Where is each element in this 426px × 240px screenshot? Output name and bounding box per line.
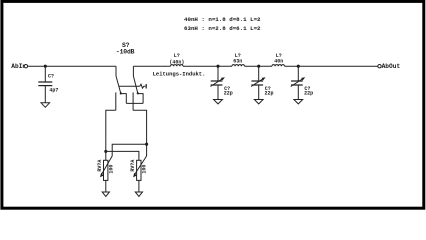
ground (RV left)	[102, 192, 109, 196]
wire L2 to node2	[245, 65, 273, 67]
svg-text:63n: 63n	[233, 58, 242, 64]
wire L3 to node3	[285, 65, 378, 67]
svg-text:40n: 40n	[274, 58, 283, 64]
node junction at C1	[44, 65, 47, 68]
trimmer resistor RV?A left 100	[97, 156, 114, 192]
svg-text:RV?A: RV?A	[97, 160, 103, 172]
wire bypass bar	[126, 102, 143, 104]
ground (C 22p #3)	[294, 100, 303, 104]
svg-text:22p: 22p	[265, 91, 274, 97]
wire AbIn to switch	[28, 65, 116, 67]
trimmer capacitor C? 22p #2	[251, 66, 273, 99]
svg-text:100: 100	[108, 165, 114, 174]
wire L1 to node1	[183, 65, 232, 67]
ground (C 4p7)	[41, 103, 50, 108]
svg-text:RV?A: RV?A	[130, 160, 136, 172]
svg-text:40nH : n=1.8 d=8.1 L=2: 40nH : n=1.8 d=8.1 L=2	[184, 16, 261, 23]
svg-text:22p: 22p	[224, 91, 233, 97]
node junction 2	[257, 65, 260, 68]
svg-text:-10dB: -10dB	[116, 49, 135, 56]
switch S? left pole	[116, 66, 127, 110]
node junction 3	[297, 65, 300, 68]
ground (C 22p #2)	[254, 100, 263, 104]
inductor L? 40n	[272, 53, 284, 66]
wire left throw to attenuator	[106, 110, 116, 160]
inductor L? 63n	[232, 53, 244, 66]
node junction right	[145, 143, 148, 146]
trimmer capacitor C? 22p #3	[291, 66, 313, 99]
svg-text:AbOut: AbOut	[382, 63, 401, 70]
svg-text:L?: L?	[174, 53, 180, 59]
svg-text:22p: 22p	[304, 91, 313, 97]
ground (C 22p #1)	[214, 100, 223, 104]
capacitor C? 4p7	[38, 66, 58, 103]
wire switch to L1	[133, 65, 170, 67]
svg-text:(40n): (40n)	[169, 60, 184, 66]
ground (RV right)	[135, 192, 142, 196]
trimmer resistor RV?A right 100	[130, 156, 147, 192]
switch S? right pole	[133, 66, 143, 110]
wire lower cross link	[106, 151, 139, 160]
switch actuator	[119, 84, 146, 89]
svg-text:C?: C?	[48, 73, 54, 79]
inductor L? (40n) Leitungs-Indukt.	[169, 53, 184, 66]
wire upper cross link	[112, 144, 146, 156]
trimmer capacitor C? 22p #1	[210, 66, 232, 99]
svg-text:100: 100	[142, 165, 148, 174]
node junction left	[104, 150, 107, 153]
svg-text:63nH : n=2.8 d=6.1 L=2: 63nH : n=2.8 d=6.1 L=2	[184, 25, 261, 32]
svg-text:4p7: 4p7	[49, 87, 58, 93]
node junction 1	[216, 65, 219, 68]
wire right throw to attenuator	[133, 110, 147, 156]
svg-text:Leitungs-Indukt.: Leitungs-Indukt.	[153, 70, 206, 77]
port AbOut	[378, 65, 381, 68]
